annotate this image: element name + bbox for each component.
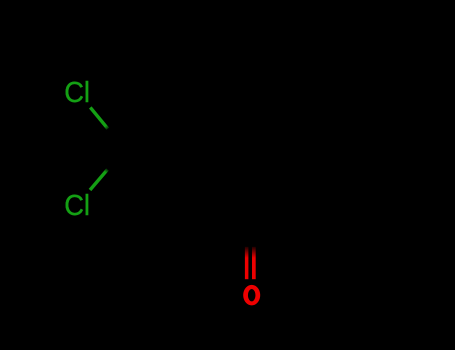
wire: invisible carbon skeleton bond C1-C2 [188,186,250,224]
wire: invisible carbon skeleton bond C2-C7 [125,149,188,186]
svg-text:Cl: Cl [64,77,90,109]
bond C7-Cl (top chlorine, chlorine-colored half) [90,107,108,128]
atom label O (carbonyl oxygen) [243,285,260,306]
bond C1=O oxygen-colored half (right line of double bond) [252,247,256,279]
bond C1=O black halves (carbon side of carbonyl double bond) [247,224,254,247]
wire: invisible carbon skeleton ring bonds [125,40,330,224]
bond C1=O oxygen-colored half (left line of double bond) [245,247,249,279]
bond C7-Cl' (bottom chlorine, chlorine-colored half) [90,170,108,191]
svg-text:Cl: Cl [64,190,90,222]
